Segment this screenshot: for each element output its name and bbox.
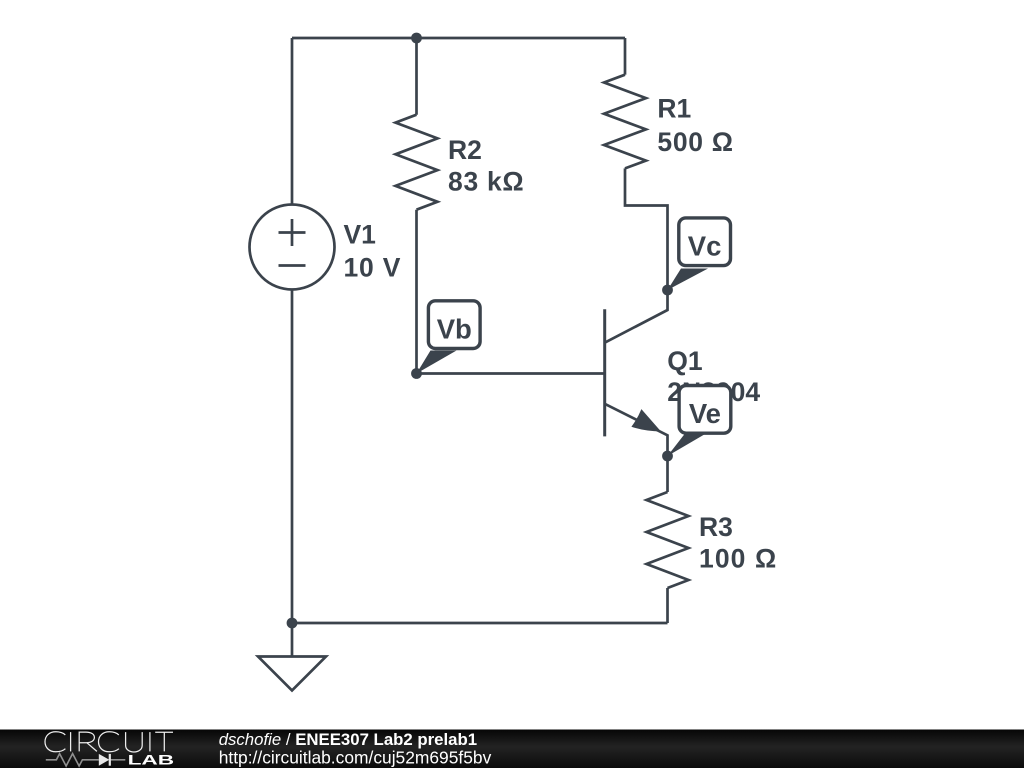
node Vc junction xyxy=(662,285,673,296)
wire top rail V+ from V1 to R1 xyxy=(292,37,625,40)
wire base from R2 node xyxy=(417,372,605,375)
resistor R1 xyxy=(604,38,668,290)
wire V1 bottom lead to ground rail xyxy=(291,290,294,624)
node junction top xyxy=(411,33,422,44)
footer bar xyxy=(0,730,1024,768)
resistor R2 xyxy=(396,38,438,374)
wire V1 top lead xyxy=(291,38,294,205)
node flag Ve xyxy=(668,386,731,457)
node flag Vc xyxy=(668,218,731,290)
svg-text:Ve: Ve xyxy=(689,398,721,429)
svg-text:http://circuitlab.com/cuj52m69: http://circuitlab.com/cuj52m695f5bv xyxy=(219,747,492,767)
svg-text:V1: V1 xyxy=(344,219,376,249)
node Ve junction xyxy=(662,451,673,462)
svg-text:83 kΩ: 83 kΩ xyxy=(448,167,524,197)
svg-text:10 V: 10 V xyxy=(344,252,402,282)
svg-text:Q1: Q1 xyxy=(667,346,702,376)
svg-text:Vc: Vc xyxy=(688,231,722,262)
logo resistor-diode symbol xyxy=(46,754,99,766)
logo word CIRCUIT xyxy=(45,732,173,752)
wire bottom ground rail xyxy=(292,622,668,625)
transistor Q1 xyxy=(605,309,668,456)
svg-text:Vb: Vb xyxy=(437,314,472,345)
transistor Q1 collector wire xyxy=(605,290,668,343)
svg-text:R2: R2 xyxy=(448,135,482,165)
svg-text:R1: R1 xyxy=(657,94,691,124)
node flag Vb xyxy=(417,301,481,374)
resistor R3 xyxy=(647,456,689,623)
svg-text:100 Ω: 100 Ω xyxy=(699,544,777,574)
voltage source V1 xyxy=(250,205,335,290)
svg-text:LAB: LAB xyxy=(128,752,175,768)
node ground junction xyxy=(287,618,298,629)
ground symbol xyxy=(258,623,326,691)
node Vb junction xyxy=(411,368,422,379)
svg-text:R3: R3 xyxy=(699,512,733,542)
svg-text:500 Ω: 500 Ω xyxy=(657,127,733,157)
